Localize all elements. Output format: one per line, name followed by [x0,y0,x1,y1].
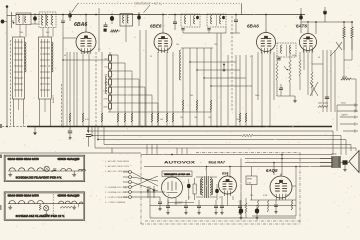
ground symbol below bus [33,127,37,135]
diode D2 [153,186,156,198]
svg-text:2 – AVV. ANT. ONDE CORTE: 2 – AVV. ANT. ONDE CORTE [105,165,130,168]
wire: antenna coil secondary drops [20,25,53,38]
coupling capacitor ERIE 0.25 (labelled box) [246,167,257,201]
svg-text:4K7: 4K7 [104,59,107,61]
screen bypass capacitor C12 [230,15,240,34]
ground: detector return [293,96,297,103]
svg-text:6BA6: 6BA6 [247,24,259,29]
svg-text:6BA6 6BE6 6BA6 6AT6: 6BA6 6BE6 6BA6 6AT6 [8,195,40,198]
svg-text:6BA6 6BE6 6BA6 6AT6: 6BA6 6BE6 6BA6 6AT6 [8,158,40,161]
coupling capacitor C19 (top right) [323,7,327,22]
svg-text:BAND II: BAND II [52,95,55,103]
trimmer capacitor CT4 [137,12,141,26]
svg-text:250: 250 [250,195,253,197]
electrolytic capacitor (dark) C31 [239,200,243,219]
wire: converter plate drops [228,55,252,127]
wire: dotted-line drop to rail [241,3,243,14]
tube V4 6AT6 detector [300,31,317,53]
wire: oscillator coil tap [125,26,127,42]
svg-text:25: 25 [150,56,152,58]
svg-text:3 – AVV. OSC. ONDE MEDIE: 3 – AVV. OSC. ONDE MEDIE [105,170,130,173]
wire: detector output to right column [301,22,353,34]
wire: bank B leads down [40,99,51,127]
svg-text:30mA: 30mA [342,76,348,79]
resistor R23 (field feed) [341,38,356,112]
svg-text:CAMPO: CAMPO [341,114,348,117]
wire: speaker connections [320,159,349,167]
left edge scan marks [0,155,2,159]
capacitor C2 grid [61,15,65,39]
svg-text:AUTOVOX: AUTOVOX [164,161,196,165]
tube V6 6X4 rectifier [219,174,237,197]
padder capacitor C8 [173,15,177,31]
svg-text:0.25: 0.25 [247,182,251,184]
svg-text:500K: 500K [292,55,297,57]
crossed AF wires [310,82,318,96]
trimmer capacitor CT1 [31,13,39,24]
svg-text:SCHEMA DEI FILAMENTI PER 6: SCHEMA DEI FILAMENTI PER 6 V. [16,176,62,179]
svg-text:1 – BOBINA OSC. O.M.: 1 – BOBINA OSC. O.M. [105,186,128,189]
power transformer T3 [196,176,217,198]
diode D1 [147,186,150,198]
oscillator coil box [120,14,133,27]
wire: output stage connections [250,155,296,216]
wire: bank A leads down [14,99,24,127]
tube V2 6BE6 converter [154,31,172,54]
svg-text:300Ω: 300Ω [341,103,346,105]
bypass capacitor C22 below bus [68,127,72,139]
svg-text:0.05: 0.05 [85,119,89,121]
tone capacitor C20 [318,97,329,103]
svg-text:6BA6: 6BA6 [74,22,87,28]
svg-text:6AT6: 6AT6 [296,24,307,29]
svg-text:2 – BOBINA OSC. O.C.: 2 – BOBINA OSC. O.C. [105,191,128,194]
resistor R30 [245,198,247,218]
svg-text:0.1: 0.1 [98,49,101,51]
wire: V3 top cap feed [265,14,267,30]
svg-text:8: 8 [168,195,169,197]
loudspeaker cone [349,151,359,173]
svg-text:0.5M: 0.5M [263,195,268,197]
tube V1 6BA6 RF amplifier [76,30,96,55]
svg-text:ERIE: ERIE [247,179,252,181]
svg-text:6BE6: 6BE6 [150,24,162,29]
resistor R17 detector load [299,52,301,90]
svg-text:3 – COMP. DI TARATURA: 3 – COMP. DI TARATURA [105,196,128,199]
alignment note dotted line [78,2,242,4]
wire: V4 pin drops [304,50,323,95]
wire: main B+ rail top [16,14,305,16]
ground bus (chassis) [2,126,332,128]
wire: long interconnect y135.5 with series resistor [92,127,341,148]
oscillator coil bank [180,48,214,112]
wire: PSU bottom rails [150,186,296,218]
resistor R22 horizontal [318,106,328,108]
small resistors above bus (center) [239,113,247,122]
tube V5 6AQ5 output [270,174,292,201]
wire: right column verticals [323,50,335,112]
cathode resistors and caps [257,200,293,213]
oscillator bank resistors [182,100,212,110]
wire: band switch step stubs [109,54,158,126]
svg-text:300: 300 [20,32,23,34]
svg-text:16: 16 [188,197,190,199]
wire: switch bus dashed [95,52,97,126]
wire: long interconnect y148 [95,148,356,155]
resistor R14 screen [276,55,278,96]
resistor R31 (100 ohm) [168,202,194,204]
svg-text:400Ω: 400Ω [332,154,337,156]
wire: oscillator section nested links [189,61,252,86]
RF unit shield enclosure (dash-dot) [11,40,62,126]
svg-text:4 – COMP. DI BANDA: 4 – COMP. DI BANDA [105,201,126,204]
svg-text:16: 16 [219,197,221,199]
filament diagram box (6V) [4,155,85,181]
svg-text:100: 100 [176,44,179,46]
wire: IF can lead drops [217,33,221,127]
tuning coil bank A [13,37,27,99]
tuning coil bank B [39,37,54,99]
chassis border (dash-dot) [141,153,332,225]
wire: PSU right vertical [240,159,242,219]
wire: interconnect drops to output [333,131,356,155]
antenna coil L1 box [16,13,31,25]
wire: oscillator bank leads to bus [183,110,211,127]
filter capacitors and grounds (PSU bottom row) [166,200,242,214]
resistor R21 [351,22,353,50]
wire: AVC feed horizontal [62,59,108,60]
small resistors above ground bus (left) [69,113,174,122]
svg-text:TARATURA IF = 467 Kc: TARATURA IF = 467 Kc [134,3,163,6]
crossed wires to output [330,42,344,56]
svg-text:100K: 100K [255,95,260,97]
wire: long interconnect y131 [88,127,333,131]
svg-text:0.1: 0.1 [250,56,253,58]
resistor R20 plate load [343,22,345,50]
svg-text:6X4 6AQ5: 6X4 6AQ5 [58,195,81,198]
wire: switch common horizontal [108,111,211,113]
resistor chain R5-R11 (AVC divider) [109,52,112,112]
trimmer capacitor CT3 [110,13,114,24]
volume control R15 [284,52,291,96]
RF coil L2 box [39,12,56,28]
svg-text:300: 300 [190,95,193,97]
wire: IF can bottom bus [183,27,226,33]
svg-text:1M: 1M [278,57,281,59]
svg-text:Mod RA7: Mod RA7 [209,161,226,165]
wire: V2 drops [158,52,173,127]
wire: legend drop [0,148,141,153]
supply terminals [123,171,165,199]
coupling capacitor C15 [299,8,303,33]
wire: V1 cathode/screen drops [63,52,89,127]
grid resistor R1 and coupling [63,22,120,52]
wire: B+ distribution to output stage [144,158,332,168]
loudspeaker voice coil [343,160,348,164]
IF transformer T1 secondary can [207,14,226,30]
wire: switch vertical [101,52,103,127]
capacitor blob C33 [215,184,219,200]
AVC arrow and ground [222,62,226,72]
wire: V4 top cap feed [307,21,309,31]
IF transformer T1 primary can [181,14,200,30]
left edge mark [0,124,2,128]
wire: mixer grid drops [140,30,146,127]
wire: PSU top feeds [206,166,231,178]
wire: long interconnect y144.5 [104,127,351,155]
svg-text:300: 300 [46,32,49,34]
electrolytic capacitor (dark) C32 [255,205,259,219]
antenna lead-in wire [1,5,17,126]
oscillator padder coil bumps [106,76,108,94]
svg-text:220: 220 [236,119,239,121]
ground: speaker frame [343,165,347,171]
trimmer capacitor CT2 [68,11,72,22]
wire: V3 pin drops [258,52,274,127]
wire: long vertical x99 [98,8,100,52]
vibrator label box [162,171,192,177]
wire: V1 top cap feed [85,14,87,30]
svg-text:6AQ5: 6AQ5 [266,168,278,173]
filament diagram box (12V) [4,192,85,220]
IF transformer T2 can [277,43,296,60]
capacitor blob right of vibrator [187,179,191,200]
resistor R18 AF coupling [311,64,313,96]
svg-text:220: 220 [214,44,217,46]
wire: speaker feed stubs at right edge [337,104,357,133]
capacitor C18 [277,84,295,96]
svg-text:50: 50 [64,55,66,57]
tube V3 6BA6 IF amplifier [257,30,276,54]
wire: V2 top cap feed [162,14,164,31]
wire: long interconnect y139.5 [98,127,346,140]
filter capacitor C21 [86,127,91,147]
vibrator [162,174,183,206]
svg-text:6X4 6AQ5: 6X4 6AQ5 [58,158,81,161]
buffer capacitor C30 [158,197,162,211]
shield partition dashed [231,16,233,112]
svg-text:50: 50 [318,57,320,59]
output transformer T4 [332,157,341,168]
note pointer line [72,3,151,13]
RF choke [193,178,196,200]
